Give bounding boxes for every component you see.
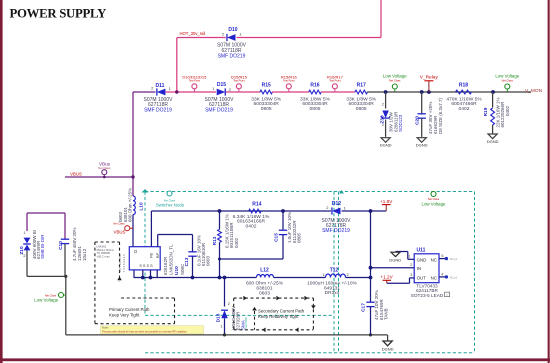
- svg-text:0402: 0402: [234, 237, 239, 248]
- svg-text:Test Point: Test Point: [189, 79, 201, 83]
- svg-text:S S S S: S S S S: [139, 264, 153, 268]
- svg-text:Net Class: Net Class: [389, 78, 401, 82]
- svg-text:TANB: TANB: [384, 308, 389, 320]
- svg-text:1: 1: [323, 273, 325, 277]
- svg-text:Net Class: Net Class: [502, 78, 514, 82]
- svg-text:IN: IN: [417, 266, 421, 271]
- svg-text:HOT_30v_rail: HOT_30v_rail: [180, 31, 206, 36]
- svg-text:R14: R14: [252, 201, 261, 207]
- svg-text:1: 1: [220, 325, 222, 329]
- svg-text:+85 C max: +85 C max: [97, 255, 111, 259]
- svg-text:C17: C17: [360, 303, 366, 312]
- svg-text:R18: R18: [459, 83, 468, 89]
- svg-text:1: 1: [382, 123, 384, 127]
- svg-text:8 D 7 D 6 D 5 D: 8 D 7 D 6 D 5 D: [118, 254, 122, 272]
- svg-text:C13: C13: [184, 257, 190, 266]
- svg-text:DR3x4: DR3x4: [325, 290, 340, 296]
- svg-text:0805: 0805: [356, 106, 367, 112]
- svg-text:D10: D10: [228, 27, 237, 33]
- svg-text:R13: R13: [212, 236, 218, 245]
- svg-text:Net Class: Net Class: [428, 197, 440, 201]
- svg-text:Secondary Current Path: Secondary Current Path: [258, 308, 305, 313]
- svg-text:Note:: Note:: [102, 326, 109, 330]
- svg-text:Low Voltage: Low Voltage: [495, 74, 519, 79]
- svg-text:0805: 0805: [310, 106, 321, 112]
- svg-text:DGND: DGND: [487, 139, 499, 144]
- svg-text:NC: NC: [431, 275, 437, 280]
- svg-text:SOD123: SOD123: [398, 114, 403, 132]
- svg-text:+1.8V: +1.8V: [380, 199, 393, 204]
- svg-text:Keep Relatively Tight: Keep Relatively Tight: [258, 314, 299, 319]
- svg-text:C20: C20: [415, 116, 421, 125]
- svg-text:R17: R17: [357, 83, 366, 89]
- svg-text:L12: L12: [260, 267, 269, 273]
- svg-text:2: 2: [382, 103, 384, 107]
- svg-text:Low Voltage: Low Voltage: [422, 202, 446, 207]
- svg-text:SMF DO219: SMF DO219: [322, 228, 350, 234]
- svg-text:SOT23-5 LEAD: SOT23-5 LEAD: [411, 293, 444, 298]
- svg-text:D15: D15: [217, 82, 226, 88]
- svg-text:BP: BP: [156, 252, 160, 258]
- svg-text:C15: C15: [274, 233, 280, 242]
- svg-text:Low Voltage: Low Voltage: [383, 74, 407, 79]
- svg-text:0402: 0402: [246, 223, 257, 229]
- svg-text:Test Point: Test Point: [233, 79, 245, 83]
- svg-text:D: D: [134, 249, 137, 254]
- svg-text:DGND: DGND: [382, 346, 394, 351]
- svg-text:VBUS: VBUS: [70, 171, 82, 176]
- svg-text:+1.2V: +1.2V: [381, 275, 394, 280]
- svg-text:0402: 0402: [505, 105, 510, 116]
- svg-text:NC: NC: [431, 258, 437, 263]
- svg-text:DGND: DGND: [389, 257, 401, 262]
- svg-text:L10: L10: [139, 202, 145, 211]
- svg-text:V_Relay: V_Relay: [420, 75, 439, 81]
- svg-text:Switcher Node: Switcher Node: [156, 203, 185, 208]
- svg-text:DGND: DGND: [380, 143, 392, 148]
- svg-text:2: 2: [23, 254, 25, 258]
- svg-text:D11: D11: [156, 83, 165, 89]
- svg-text:Primary path should be kept as: Primary path should be kept as short as …: [102, 330, 187, 334]
- svg-text:0603: 0603: [206, 255, 211, 266]
- svg-text:Keep Very Tight: Keep Very Tight: [109, 313, 140, 318]
- svg-text:0603: 0603: [259, 290, 270, 296]
- svg-text:0805: 0805: [296, 232, 301, 243]
- svg-text:D8 SIZE (6.3x7.7): D8 SIZE (6.3x7.7): [438, 97, 443, 134]
- svg-text:GND: GND: [417, 258, 427, 263]
- svg-text:2: 2: [228, 302, 230, 306]
- svg-text:0402: 0402: [459, 106, 470, 112]
- svg-text:FB: FB: [150, 253, 154, 258]
- svg-text:Test Point: Test Point: [283, 79, 295, 83]
- svg-text:Test Point: Test Point: [329, 79, 341, 83]
- svg-text:SMF DO219: SMF DO219: [218, 53, 246, 59]
- svg-text:SMB BI-DIR: SMB BI-DIR: [40, 234, 45, 259]
- svg-text:C10: C10: [58, 241, 64, 250]
- svg-text:LNK562DN_TL: LNK562DN_TL: [169, 244, 174, 275]
- svg-text:0805: 0805: [261, 106, 272, 112]
- svg-text:D12: D12: [332, 201, 341, 207]
- svg-text:2: 2: [347, 273, 349, 277]
- svg-text:V_MON: V_MON: [525, 88, 543, 94]
- svg-text:SMF DO219: SMF DO219: [205, 108, 233, 114]
- svg-text:10x12: 10x12: [82, 248, 87, 261]
- svg-text:OUT: OUT: [417, 275, 427, 280]
- svg-text:Net Class: Net Class: [98, 166, 111, 170]
- svg-text:U11: U11: [417, 247, 426, 253]
- svg-text:SMF DO219: SMF DO219: [144, 108, 172, 114]
- svg-text:R16: R16: [310, 83, 319, 89]
- svg-text:T12: T12: [330, 268, 339, 274]
- svg-text:Net Class: Net Class: [113, 221, 125, 225]
- svg-text:Primary Current Path: Primary Current Path: [109, 307, 150, 312]
- svg-text:POWER SUPPLY: POWER SUPPLY: [10, 7, 107, 21]
- svg-text:DGND: DGND: [416, 143, 428, 148]
- svg-text:Low Voltage: Low Voltage: [34, 297, 58, 302]
- svg-text:Fast 50/60: Fast 50/60: [245, 317, 248, 329]
- svg-text:R19: R19: [483, 107, 489, 116]
- svg-text:VBUS: VBUS: [114, 230, 126, 235]
- svg-text:NC,p1: NC,p1: [450, 276, 458, 280]
- svg-text:626162R: 626162R: [163, 256, 168, 275]
- svg-text:D13: D13: [216, 313, 222, 322]
- svg-text:R15: R15: [262, 83, 271, 89]
- svg-text:NC,p1: NC,p1: [450, 257, 458, 261]
- svg-text:1: 1: [23, 231, 25, 235]
- svg-text:600 Ohm +/-25%: 600 Ohm +/-25%: [127, 188, 132, 222]
- svg-text:1 S 2 S 3 S 4 S: 1 S 2 S 3 S 4 S: [122, 254, 126, 272]
